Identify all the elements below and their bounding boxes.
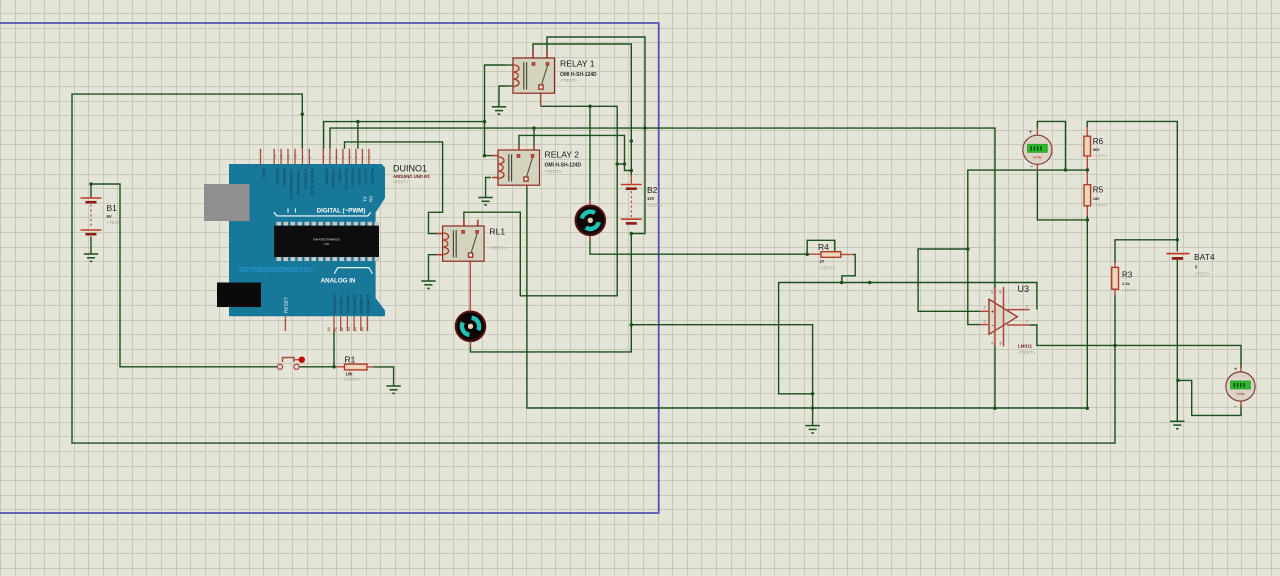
svg-text:<TEXT>: <TEXT> (393, 179, 409, 184)
svg-text:<TEXT>: <TEXT> (545, 169, 562, 174)
svg-text:<TEXT>: <TEXT> (107, 220, 123, 225)
svg-text:10: 10 (294, 155, 298, 159)
svg-text:+: + (1234, 366, 1238, 373)
svg-text:7: 7 (1026, 320, 1028, 324)
svg-text:OMI H-SH-124D: OMI H-SH-124D (545, 163, 582, 169)
svg-text:B2: B2 (647, 185, 658, 195)
svg-text:PC3/ADC3: PC3/ADC3 (353, 295, 357, 314)
svg-text:2: 2 (355, 157, 359, 159)
svg-text:PB5/SCK: PB5/SCK (275, 168, 279, 185)
svg-text:5: 5 (335, 157, 339, 159)
svg-text:AREF: AREF (261, 168, 265, 179)
svg-text:3: 3 (984, 320, 986, 324)
svg-text:U3: U3 (1018, 284, 1030, 294)
svg-text:<TEXT>: <TEXT> (489, 246, 506, 251)
svg-text:<TEXT>: <TEXT> (819, 266, 836, 271)
svg-text:6: 6 (329, 157, 333, 159)
svg-text:<TEXT>: <TEXT> (1093, 203, 1109, 208)
svg-text:B1: B1 (107, 203, 118, 213)
svg-text:~PB3/MOSI/OC2A: ~PB3/MOSI/OC2A (289, 168, 293, 200)
svg-text:+: + (1028, 129, 1032, 136)
svg-text:TM4 ATEGTVRWRGLV: TM4 ATEGTVRWRGLV (313, 238, 340, 242)
svg-text:BAT4: BAT4 (1194, 252, 1215, 262)
svg-text:−: − (991, 323, 995, 330)
svg-text:ANALOG IN: ANALOG IN (321, 277, 356, 284)
svg-text:www.TheEngineeringProjects.com: www.TheEngineeringProjects.com (238, 268, 313, 273)
svg-text:R4: R4 (818, 242, 829, 252)
svg-text:7: 7 (322, 157, 326, 159)
svg-text:<TEXT>: <TEXT> (1093, 153, 1109, 158)
svg-text:−: − (1234, 404, 1238, 410)
svg-text:R1: R1 (345, 354, 356, 364)
svg-text:3: 3 (348, 157, 352, 159)
svg-text:RELAY 1: RELAY 1 (560, 59, 595, 69)
svg-text:8: 8 (308, 157, 312, 159)
svg-text:27: 27 (820, 259, 825, 264)
svg-text:4: 4 (342, 157, 346, 159)
svg-text:R6: R6 (1093, 137, 1104, 146)
svg-text:+: + (991, 308, 995, 315)
svg-text:~PD5/T1: ~PD5/T1 (337, 168, 341, 183)
svg-text:RESET: RESET (284, 297, 290, 313)
svg-text:PD0/RXD: PD0/RXD (370, 168, 374, 185)
svg-text:560: 560 (1093, 147, 1100, 152)
svg-text:A2: A2 (340, 327, 344, 331)
svg-text:ARDUINO UNO R3: ARDUINO UNO R3 (393, 174, 430, 179)
svg-text:PD7/AIN1: PD7/AIN1 (324, 168, 328, 185)
svg-text:~PB2/SS/OC1B: ~PB2/SS/OC1B (296, 168, 300, 195)
svg-text:R3: R3 (1122, 270, 1133, 279)
svg-text:Volts: Volts (1033, 155, 1041, 160)
svg-text:12: 12 (280, 155, 284, 159)
svg-text:Volts: Volts (1236, 391, 1244, 396)
svg-text:PC4/ADC4: PC4/ADC4 (360, 295, 364, 314)
svg-text:0: 0 (368, 157, 372, 159)
svg-text:2: 2 (984, 306, 986, 310)
svg-text:<TEXT>: <TEXT> (1195, 272, 1211, 277)
svg-text:1: 1 (1026, 305, 1028, 309)
svg-text:A0: A0 (327, 327, 331, 331)
svg-text:PD4/T0/XCK: PD4/T0/XCK (344, 168, 348, 190)
svg-text:U201: U201 (324, 243, 330, 246)
svg-text:A1: A1 (334, 327, 338, 331)
svg-text:A3: A3 (347, 327, 351, 331)
svg-text:PC2/ADC2: PC2/ADC2 (346, 295, 350, 314)
svg-text:180: 180 (1093, 196, 1100, 201)
svg-text:5: 5 (991, 291, 993, 295)
svg-text:1: 1 (361, 157, 365, 159)
svg-text:A5: A5 (360, 327, 364, 331)
svg-text:<TEXT>: <TEXT> (1122, 287, 1138, 292)
svg-text:<TEXT>: <TEXT> (1018, 350, 1035, 355)
svg-text:4: 4 (991, 342, 993, 346)
svg-text:PB0/ICP1/CLKO: PB0/ICP1/CLKO (310, 168, 314, 196)
svg-text:LM311: LM311 (1018, 344, 1032, 349)
svg-text:<TEXT>: <TEXT> (344, 377, 361, 382)
svg-text:PC1/ADC1: PC1/ADC1 (340, 295, 344, 314)
svg-text:PD1/TXD: PD1/TXD (363, 168, 367, 184)
svg-text:6: 6 (1000, 291, 1002, 295)
svg-text:2.2k: 2.2k (1122, 281, 1131, 286)
svg-text:~PB1/OC1A: ~PB1/OC1A (303, 168, 307, 189)
svg-text:TX: TX (362, 196, 367, 202)
svg-text:8: 8 (1000, 342, 1002, 346)
svg-text:DIGITAL (~PWM): DIGITAL (~PWM) (317, 207, 366, 214)
svg-text:PC0/ADC0: PC0/ADC0 (333, 295, 337, 314)
svg-text:A4: A4 (354, 327, 358, 331)
svg-text:9: 9 (301, 157, 305, 159)
svg-text:<TEXT>: <TEXT> (647, 203, 663, 208)
svg-text:−: − (1030, 165, 1034, 171)
svg-text:RELAY 2: RELAY 2 (545, 150, 580, 160)
svg-text:R5: R5 (1093, 185, 1104, 194)
svg-text:~PD6/AIN0: ~PD6/AIN0 (331, 168, 335, 187)
svg-text:11: 11 (287, 155, 291, 159)
svg-text:PB4/MISO: PB4/MISO (282, 168, 286, 186)
svg-text:10k: 10k (346, 372, 354, 377)
svg-text:RL1: RL1 (489, 227, 505, 237)
svg-text:12V: 12V (647, 196, 655, 201)
svg-text:13: 13 (273, 155, 277, 159)
svg-text:PC5/ADC5: PC5/ADC5 (366, 295, 370, 314)
svg-text:RX: RX (368, 196, 373, 202)
svg-text:PD2/INT0: PD2/INT0 (357, 168, 361, 185)
svg-text:~PD3/INT1: ~PD3/INT1 (350, 168, 354, 187)
svg-text:<TEXT>: <TEXT> (560, 78, 577, 83)
svg-text:9V: 9V (107, 214, 112, 219)
svg-text:DUINO1: DUINO1 (393, 164, 427, 174)
